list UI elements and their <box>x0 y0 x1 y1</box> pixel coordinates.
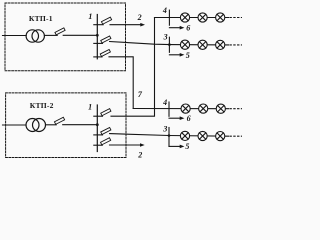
svg-text:3: 3 <box>163 33 168 42</box>
wire: branch 2 to lighting line 3 (top) <box>110 42 229 45</box>
wire: long tie from KTP-2 branch 1 up to top line 4 <box>111 18 155 117</box>
wire 7: cross-tie from KTP-1 branch 3 down to lower line 4 <box>109 57 133 109</box>
substation box KTP-2 (dashed enclosure) <box>6 93 126 158</box>
lamp L3-1 (bottom) <box>180 131 189 140</box>
wire: branch 2 to lighting line 3 (bottom) <box>110 134 229 137</box>
branch 1 stub <box>97 24 103 26</box>
lamp L4-1 (top) <box>180 13 189 22</box>
svg-text:6: 6 <box>186 24 190 33</box>
wire: incoming feed to transformer T2 <box>3 124 27 126</box>
svg-text:3: 3 <box>162 125 167 134</box>
transformer T2 <box>26 119 39 132</box>
lamp L3-3 (top) <box>216 40 225 49</box>
bus tick branch 1 (KTP-2) <box>94 115 98 117</box>
fuse-switch F3 <box>100 49 110 56</box>
wire: feeder line to arrow <box>110 24 142 26</box>
lamp L3-2 (top) <box>198 40 207 49</box>
substation box KTP-1 (dashed enclosure) <box>5 3 126 71</box>
branch 2 stub <box>97 42 102 44</box>
fuse-switch F3b <box>101 138 111 145</box>
fuse-switch F2b <box>101 127 111 134</box>
svg-text:5: 5 <box>185 142 189 151</box>
fuse-switch F1b <box>101 109 111 116</box>
dotted continuation line 3 (bottom) <box>230 135 242 137</box>
fuse-switch F1 <box>101 17 111 24</box>
svg-text:6: 6 <box>187 114 191 123</box>
lamp L3-1 (top) <box>180 40 189 49</box>
fuse-switch F0 (tilted blade) <box>55 28 65 35</box>
svg-text:КТП-2: КТП-2 <box>30 101 54 110</box>
bus tick branch 1 <box>94 24 98 26</box>
junction dot at bus 1 (KTP-2) <box>96 123 99 126</box>
svg-text:1: 1 <box>88 12 92 21</box>
bus tick branch 2 (KTP-2) <box>94 134 98 136</box>
wire: switch to bus 1 (KTP-2) <box>63 124 98 126</box>
tick at start of line 4 (top) <box>168 10 170 25</box>
svg-text:2: 2 <box>137 151 142 160</box>
bus 1 (node 1, KTP-1) <box>96 15 98 59</box>
branch 3 stub <box>97 56 102 58</box>
tick at start of line 3 (bottom) <box>168 128 170 147</box>
lighting line 4 (bottom), fed by wire 7 <box>133 108 228 110</box>
dotted continuation line 4 (top) <box>230 17 242 19</box>
lamp L3-2 (bottom) <box>198 131 207 140</box>
direction arrow 5 (top) <box>169 54 181 56</box>
tick at start of line 4 (bottom) <box>168 102 170 116</box>
arrowhead feeder 2 (top) <box>140 23 145 27</box>
lamp L3-3 (bottom) <box>216 132 225 141</box>
svg-text:4: 4 <box>162 6 167 15</box>
direction arrow 6 (bottom) <box>169 117 181 119</box>
svg-text:2: 2 <box>137 13 142 22</box>
dotted continuation line 3 (top) <box>230 44 242 46</box>
arrowhead feeder 2 (bottom) <box>140 143 145 147</box>
transformer T1 <box>26 30 38 42</box>
wire: transformer T1 to switch <box>44 34 57 36</box>
svg-text:4: 4 <box>162 98 167 107</box>
wire: incoming feed to transformer T1 <box>3 35 27 37</box>
bus tick branch 3 (KTP-2) <box>94 144 98 146</box>
svg-text:1: 1 <box>88 103 92 112</box>
bus tick branch 3 <box>94 56 98 58</box>
fuse-switch F2 <box>101 36 111 43</box>
junction dot line 3 (bottom) <box>168 134 171 137</box>
lamp L4-2 (top) <box>198 13 207 22</box>
dotted continuation line 4 (bottom) <box>230 108 242 110</box>
lighting line 4 (top) <box>155 17 229 19</box>
direction arrow 5 (bottom) <box>169 145 181 147</box>
lamp L4-3 (bottom) <box>216 104 225 113</box>
lamp L4-2 (bottom) <box>199 104 208 113</box>
bus 1 (node 1, KTP-2) <box>96 105 98 152</box>
junction dot at bus 1 <box>96 34 99 37</box>
wire: switch to bus 1 <box>63 34 97 36</box>
branch 1 stub (KTP-2) <box>97 115 102 117</box>
lamp L4-1 (bottom) <box>181 104 190 113</box>
direction arrow 6 (top) <box>169 27 181 29</box>
tick at start of line 3 (top) <box>168 37 170 52</box>
svg-text:КТП-1: КТП-1 <box>29 14 53 23</box>
lamp L4-3 (top) <box>216 13 225 22</box>
svg-text:7: 7 <box>138 90 143 99</box>
svg-text:5: 5 <box>186 51 190 60</box>
wire: transformer T2 to switch <box>46 124 57 126</box>
branch 2 stub (KTP-2) <box>97 134 102 136</box>
wire: feeder line to arrow (bottom) <box>110 144 142 146</box>
fuse-switch F0b <box>54 117 64 124</box>
junction dot line 3 (top) <box>168 43 171 46</box>
bus tick branch 2 <box>94 42 98 44</box>
branch 3 stub (KTP-2) <box>97 144 102 146</box>
